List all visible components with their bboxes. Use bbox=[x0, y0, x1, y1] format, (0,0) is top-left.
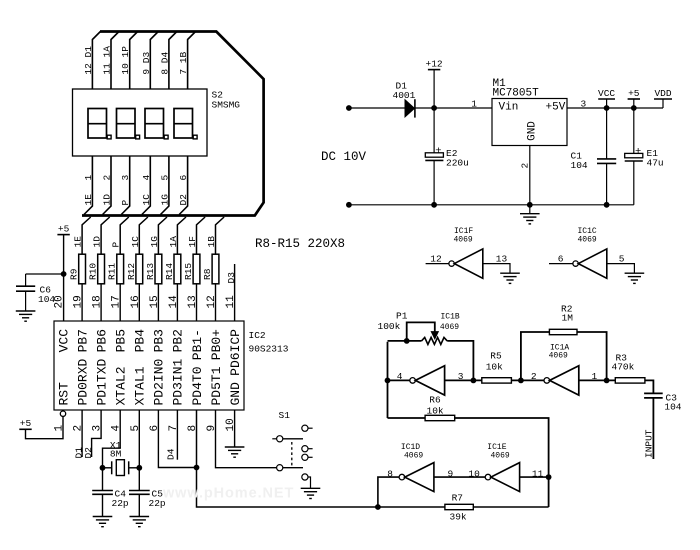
wire bundle to resistor R13 bbox=[158, 217, 167, 254]
svg-text:R13: R13 bbox=[145, 263, 156, 280]
svg-text:1: 1 bbox=[471, 98, 477, 109]
svg-text:4: 4 bbox=[141, 175, 152, 181]
wire M1 GND pin 2 bbox=[529, 146, 531, 205]
svg-text:11: 11 bbox=[532, 468, 544, 479]
svg-text:9 D3: 9 D3 bbox=[141, 51, 152, 74]
svg-text:R15: R15 bbox=[183, 263, 194, 280]
svg-text:D2: D2 bbox=[178, 194, 189, 206]
wire to C6 bbox=[26, 273, 64, 275]
display connector bundle outline bbox=[82, 32, 264, 216]
power VDD symbol bbox=[662, 99, 664, 108]
svg-text:1D: 1D bbox=[92, 236, 103, 248]
svg-text:90S2313: 90S2313 bbox=[249, 344, 289, 355]
wire display bottom pin 1 bbox=[84, 156, 92, 215]
ground under C4 bbox=[93, 517, 113, 527]
switch S1 pole B contact bbox=[277, 465, 303, 471]
svg-text:PB1-: PB1- bbox=[190, 329, 205, 360]
svg-text:220u: 220u bbox=[446, 158, 469, 169]
wire bundle to resistor R14 bbox=[177, 217, 186, 254]
svg-text:PD5T1: PD5T1 bbox=[209, 366, 224, 405]
svg-text:10k: 10k bbox=[427, 405, 444, 416]
svg-text:PD2IN0: PD2IN0 bbox=[152, 359, 167, 406]
wire IC2 pin 4 XTAL2 bbox=[103, 410, 121, 490]
wire R5 to IC1A pin 2 bbox=[511, 379, 544, 381]
svg-text:R6: R6 bbox=[429, 395, 441, 406]
power +5 to IC2 VCC bbox=[57, 234, 69, 236]
resistor R2 bbox=[549, 329, 577, 334]
wire bundle to resistor R8 bbox=[216, 217, 225, 254]
svg-text:13: 13 bbox=[496, 253, 508, 264]
ground at IC1F bbox=[500, 273, 520, 283]
svg-text:R10: R10 bbox=[88, 263, 99, 280]
wire IC1C input pin 5 to ground bbox=[607, 264, 635, 273]
svg-text:4: 4 bbox=[397, 371, 403, 382]
svg-text:+12: +12 bbox=[426, 58, 443, 69]
node DC input - terminal bbox=[346, 202, 352, 208]
svg-text:PB4: PB4 bbox=[133, 329, 148, 353]
switch S1 throw contacts bbox=[302, 425, 313, 460]
wire IC2 pin 9 to S1 bbox=[216, 410, 277, 468]
resistor R15 bbox=[193, 254, 200, 284]
svg-text:+5: +5 bbox=[58, 223, 70, 234]
resistor R14 bbox=[174, 254, 181, 284]
svg-text:8 D4: 8 D4 bbox=[159, 51, 170, 74]
resistor R12 bbox=[136, 254, 143, 284]
svg-text:13: 13 bbox=[187, 295, 199, 308]
node IC1B input bbox=[385, 378, 391, 384]
inverter IC1D bbox=[399, 463, 434, 492]
svg-text:+5: +5 bbox=[20, 418, 32, 429]
capacitor C5 bbox=[129, 491, 150, 517]
svg-text:VCC: VCC bbox=[56, 329, 71, 353]
ground under M1 bbox=[529, 205, 531, 214]
svg-text:1: 1 bbox=[83, 175, 94, 181]
wire R9 to IC2 bbox=[81, 284, 83, 321]
wire bundle to resistor R15 bbox=[197, 217, 206, 254]
wire IC2 pin 5 XTAL1 bbox=[138, 410, 140, 490]
svg-text:IC1C: IC1C bbox=[578, 227, 597, 236]
svg-text:3: 3 bbox=[120, 175, 131, 181]
svg-text:INPUT: INPUT bbox=[643, 429, 654, 458]
svg-text:VCC: VCC bbox=[598, 88, 615, 99]
node pin 3 junction bbox=[471, 378, 477, 384]
regulator M1 MC7805T body bbox=[492, 99, 567, 146]
wire IC2 pin 8 to bottom bus bbox=[197, 410, 378, 507]
ground under C6 bbox=[16, 311, 36, 321]
capacitor C6 bbox=[16, 274, 35, 311]
svg-text:1G: 1G bbox=[159, 194, 170, 206]
svg-text:PB6: PB6 bbox=[94, 329, 109, 352]
wire IC1B pin 3 to R5 bbox=[445, 379, 482, 381]
svg-text:GND: GND bbox=[527, 121, 539, 141]
svg-text:P1: P1 bbox=[396, 311, 408, 322]
crystal X1 8M bbox=[103, 460, 140, 476]
svg-text:39k: 39k bbox=[450, 511, 467, 522]
svg-text:11 1A: 11 1A bbox=[102, 46, 113, 75]
capacitor C4 bbox=[92, 491, 113, 517]
wire IC1F input pin 13 to ground bbox=[483, 264, 510, 273]
wire R15 to IC2 bbox=[196, 284, 198, 321]
svg-text:19: 19 bbox=[73, 295, 85, 308]
potentiometer P1 element bbox=[422, 337, 448, 344]
power +12 bbox=[433, 70, 435, 108]
inverter IC1B bbox=[410, 366, 445, 395]
svg-text:+5V: +5V bbox=[546, 102, 566, 114]
display module S2 body bbox=[73, 89, 208, 156]
resistor R6 bbox=[425, 415, 455, 420]
wire RST to +5 bbox=[26, 416, 64, 438]
svg-text:20: 20 bbox=[54, 295, 66, 308]
wire display top pin 12 bbox=[92, 32, 100, 90]
svg-text:3: 3 bbox=[458, 371, 464, 382]
inverter IC1E bbox=[485, 463, 519, 492]
wire R2 feedback up bbox=[521, 332, 550, 380]
wire display top pin 10 bbox=[130, 32, 138, 90]
svg-text:1C: 1C bbox=[141, 194, 152, 206]
wire R2 to pin 1 bbox=[577, 332, 607, 380]
svg-text:9: 9 bbox=[448, 468, 454, 479]
node P1 left junction bbox=[404, 338, 410, 344]
svg-text:R9: R9 bbox=[69, 268, 80, 280]
svg-text:XTAL1: XTAL1 bbox=[133, 366, 148, 405]
svg-text:8M: 8M bbox=[110, 448, 122, 459]
wire D1 to M1 Vin bbox=[415, 107, 492, 109]
7-segment digit 1 bbox=[88, 109, 111, 139]
svg-text:8: 8 bbox=[387, 468, 393, 479]
svg-text:D3: D3 bbox=[226, 272, 237, 284]
svg-text:1G: 1G bbox=[149, 236, 160, 248]
svg-text:PB0+: PB0+ bbox=[209, 329, 224, 360]
svg-text:12: 12 bbox=[430, 253, 442, 264]
7-segment digit 2 bbox=[117, 109, 140, 139]
svg-text:5: 5 bbox=[159, 175, 170, 181]
wire display bottom pin 4 bbox=[142, 156, 150, 215]
svg-text:4069: 4069 bbox=[578, 236, 597, 245]
svg-text:47u: 47u bbox=[647, 158, 664, 169]
wire IC2 pin 7 net D4 bbox=[176, 410, 178, 460]
switch S1 ground contact bbox=[302, 474, 311, 488]
svg-text:R8: R8 bbox=[202, 268, 213, 280]
svg-text:P: P bbox=[111, 242, 122, 248]
inverter IC1A bbox=[544, 366, 579, 395]
P1 wiper arrowhead bbox=[431, 332, 438, 339]
svg-text:10k: 10k bbox=[486, 361, 503, 372]
svg-text:14: 14 bbox=[168, 295, 180, 309]
capacitor E2 220u electrolytic bbox=[425, 108, 443, 205]
svg-text:100k: 100k bbox=[378, 321, 401, 332]
IC U2 90S2313 body bbox=[54, 321, 244, 410]
wire R6 left bbox=[388, 417, 425, 419]
wire IC1D pin 9 to IC1E pin 10 bbox=[434, 476, 485, 478]
wire display bottom pin 3 bbox=[121, 156, 129, 215]
wire display bottom pin 5 bbox=[161, 156, 169, 215]
svg-text:1A: 1A bbox=[168, 236, 179, 248]
svg-text:R12: R12 bbox=[126, 263, 137, 280]
svg-text:4069: 4069 bbox=[454, 236, 473, 245]
svg-text:R7: R7 bbox=[452, 492, 463, 503]
wire bundle to resistor R9 bbox=[82, 217, 91, 254]
wire R14 to IC2 bbox=[176, 284, 178, 321]
svg-text:Vin: Vin bbox=[499, 102, 519, 114]
node +12 junction bbox=[431, 105, 437, 111]
wire bundle to resistor R10 bbox=[101, 217, 110, 254]
ground under C5 bbox=[130, 517, 150, 527]
svg-text:16: 16 bbox=[130, 295, 142, 308]
svg-text:4001: 4001 bbox=[393, 90, 416, 101]
wire R3 to C3 bbox=[645, 380, 653, 393]
wire display bottom pin 6 bbox=[179, 156, 187, 215]
svg-text:10 1P: 10 1P bbox=[120, 46, 131, 75]
svg-text:IC2: IC2 bbox=[249, 330, 266, 341]
resistor R13 bbox=[155, 254, 162, 284]
svg-text:104: 104 bbox=[664, 401, 681, 412]
IC2 RST inversion bubble bbox=[60, 411, 65, 416]
resistor R7 bbox=[445, 504, 473, 509]
wire feedback top left bbox=[388, 340, 422, 342]
svg-text:+: + bbox=[635, 146, 641, 158]
wire P1 wiper bbox=[407, 322, 435, 341]
power VCC symbol bbox=[606, 99, 608, 108]
svg-text:10: 10 bbox=[468, 468, 480, 479]
wire M1 out to VDD bbox=[567, 107, 663, 109]
inverter IC1C bbox=[573, 249, 607, 278]
wire display top pin 8 bbox=[169, 32, 177, 90]
wire R13 to IC2 bbox=[157, 284, 159, 321]
svg-text:4069: 4069 bbox=[440, 323, 459, 332]
wire display top pin 7 bbox=[188, 32, 196, 90]
svg-text:1C: 1C bbox=[130, 236, 141, 248]
svg-text:D4: D4 bbox=[165, 448, 176, 460]
svg-text:2: 2 bbox=[519, 163, 530, 169]
svg-text:17: 17 bbox=[111, 295, 123, 308]
resistor R8 bbox=[212, 254, 219, 284]
svg-text:+: + bbox=[435, 145, 441, 157]
svg-text:R11: R11 bbox=[107, 263, 118, 280]
wire IC1D output pin 8 bbox=[378, 477, 399, 507]
svg-text:1D: 1D bbox=[102, 194, 113, 206]
svg-text:6: 6 bbox=[558, 253, 564, 264]
svg-text:MC7805T: MC7805T bbox=[493, 88, 540, 100]
svg-text:SMSMG: SMSMG bbox=[212, 100, 241, 111]
wire IC1E pin 11 bbox=[520, 476, 549, 478]
svg-text:GND: GND bbox=[228, 382, 243, 406]
node bottom bus junction bbox=[375, 504, 381, 510]
node GND junction bbox=[527, 202, 533, 208]
svg-text:PB5: PB5 bbox=[114, 329, 129, 352]
power +5 at RST bbox=[19, 428, 31, 430]
svg-text:PB3: PB3 bbox=[152, 329, 167, 352]
wire display top pin 11 bbox=[111, 32, 119, 90]
svg-text:www.pHome.NET: www.pHome.NET bbox=[162, 486, 294, 502]
svg-text:470k: 470k bbox=[612, 361, 635, 372]
power +5 symbol bbox=[633, 99, 635, 108]
svg-text:1E: 1E bbox=[83, 194, 94, 206]
svg-text:XTAL2: XTAL2 bbox=[114, 366, 129, 405]
svg-text:104: 104 bbox=[571, 160, 588, 171]
svg-text:+5: +5 bbox=[628, 88, 640, 99]
ground at IC1C bbox=[625, 273, 645, 283]
svg-text:PD4T0: PD4T0 bbox=[190, 366, 205, 405]
wire IC1C output pin 6 bbox=[549, 263, 573, 265]
wire bundle to resistor R11 bbox=[120, 217, 129, 254]
svg-text:12 D1: 12 D1 bbox=[83, 46, 94, 75]
svg-text:PD0RXD: PD0RXD bbox=[75, 358, 90, 405]
node C1 bottom junction bbox=[604, 202, 610, 208]
svg-text:22p: 22p bbox=[112, 498, 129, 509]
svg-text:1: 1 bbox=[592, 371, 598, 382]
svg-text:IC1D: IC1D bbox=[401, 443, 420, 452]
svg-text:3: 3 bbox=[581, 98, 587, 109]
node E2 bottom junction bbox=[431, 202, 437, 208]
svg-text:PD3IN1: PD3IN1 bbox=[171, 358, 186, 405]
svg-text:7 1B: 7 1B bbox=[178, 51, 189, 74]
node VCC junction top bbox=[604, 105, 610, 111]
svg-text:PB7: PB7 bbox=[75, 329, 90, 352]
svg-text:4069: 4069 bbox=[549, 352, 568, 361]
wire R7 to pin 11 node bbox=[473, 506, 548, 508]
wire display top pin 9 bbox=[150, 32, 158, 90]
node pin 1 junction bbox=[604, 378, 610, 384]
svg-text:2: 2 bbox=[102, 175, 113, 181]
power rail bottom bbox=[349, 204, 634, 206]
node +5 junction top bbox=[631, 105, 637, 111]
svg-text:1M: 1M bbox=[562, 313, 574, 324]
wire R10 to IC2 bbox=[100, 284, 102, 321]
capacitor C1 104 bbox=[597, 108, 616, 205]
resistor R9 bbox=[79, 254, 86, 284]
svg-text:RST: RST bbox=[56, 382, 71, 406]
wire R12 to IC2 bbox=[138, 284, 140, 321]
wire C3 to INPUT bbox=[652, 398, 654, 459]
wire IC2 pin 2 net D1 bbox=[81, 410, 83, 457]
svg-text:S1: S1 bbox=[279, 410, 291, 421]
svg-text:PD1TXD: PD1TXD bbox=[94, 358, 109, 405]
svg-text:IC1F: IC1F bbox=[454, 227, 473, 236]
svg-text:5: 5 bbox=[619, 253, 625, 264]
svg-text:DC 10V: DC 10V bbox=[321, 150, 367, 164]
resistor R5 bbox=[482, 378, 512, 383]
svg-text:PD6ICP: PD6ICP bbox=[228, 329, 243, 376]
svg-text:1B: 1B bbox=[206, 236, 217, 248]
resistor R11 bbox=[117, 254, 124, 284]
svg-text:4069: 4069 bbox=[491, 452, 510, 461]
svg-text:12: 12 bbox=[206, 295, 218, 308]
svg-text:15: 15 bbox=[149, 295, 161, 308]
svg-text:D2: D2 bbox=[83, 447, 94, 459]
wire R6 right to IC1E pin 11 bbox=[455, 418, 549, 507]
svg-text:6: 6 bbox=[178, 175, 189, 181]
wire IC1F output pin 12 bbox=[426, 263, 449, 265]
resistor R3 bbox=[615, 378, 645, 383]
wire R11 to IC2 bbox=[119, 284, 121, 321]
wire R8 to IC2 bbox=[215, 284, 217, 321]
svg-text:R14: R14 bbox=[164, 263, 175, 280]
capacitor E1 47u electrolytic bbox=[625, 108, 643, 205]
svg-text:PB2: PB2 bbox=[171, 329, 186, 352]
svg-text:IC1B: IC1B bbox=[441, 312, 460, 321]
svg-text:R5: R5 bbox=[490, 351, 502, 362]
switch S1 pole A contact bbox=[272, 436, 303, 442]
7-segment digit 4 bbox=[174, 109, 197, 139]
svg-text:11: 11 bbox=[225, 295, 237, 309]
wire bundle to resistor R12 bbox=[139, 217, 148, 254]
7-segment digit 3 bbox=[145, 109, 168, 139]
svg-text:1F: 1F bbox=[187, 236, 198, 248]
svg-text:IC1E: IC1E bbox=[487, 443, 506, 452]
svg-text:4069: 4069 bbox=[404, 452, 423, 461]
svg-text:18: 18 bbox=[92, 295, 104, 308]
svg-text:P: P bbox=[120, 200, 131, 206]
svg-text:VDD: VDD bbox=[654, 88, 671, 99]
wire net D3 to IC2 pin 11 bbox=[234, 264, 236, 321]
wire display bottom pin 2 bbox=[103, 156, 111, 215]
wire IC2 pin 3 net D2 bbox=[92, 410, 102, 457]
node XTAL2 junction bbox=[100, 465, 106, 471]
node pin 2 junction bbox=[518, 378, 524, 384]
node XTAL1 junction bbox=[136, 465, 142, 471]
ground at IC2 pin 10 bbox=[225, 447, 245, 457]
inverter IC1F bbox=[449, 249, 483, 278]
wire DC+ to D1 bbox=[349, 107, 405, 109]
node DC input + terminal bbox=[346, 105, 352, 111]
wire IC1B feedback left vertical bbox=[387, 342, 389, 418]
node VCC junction bbox=[61, 271, 67, 277]
svg-text:2: 2 bbox=[531, 371, 537, 382]
wire IC1B output pin 4 bbox=[388, 379, 410, 381]
wire +5 to pin 20 bbox=[63, 235, 65, 321]
svg-text:1E: 1E bbox=[73, 236, 84, 248]
wire IC2 pin 6 PD2 bbox=[158, 410, 196, 468]
svg-text:R8-R15 220X8: R8-R15 220X8 bbox=[255, 237, 345, 251]
switch S1 gang link (dashed) bbox=[291, 442, 293, 466]
node pin 11 junction bbox=[546, 474, 552, 480]
wire IC2 pin 10 GND bbox=[234, 410, 236, 447]
diode D1 4001 bbox=[405, 99, 415, 117]
resistor R10 bbox=[98, 254, 105, 284]
node pin6-pin8 junction bbox=[194, 465, 200, 471]
wire feedback right down bbox=[447, 341, 473, 381]
capacitor C3 104 bbox=[644, 393, 663, 398]
wire IC1A pin 1 to R3 bbox=[579, 379, 615, 381]
wire bottom bus to R7 bbox=[378, 506, 445, 508]
ground at S1 bbox=[301, 488, 321, 498]
